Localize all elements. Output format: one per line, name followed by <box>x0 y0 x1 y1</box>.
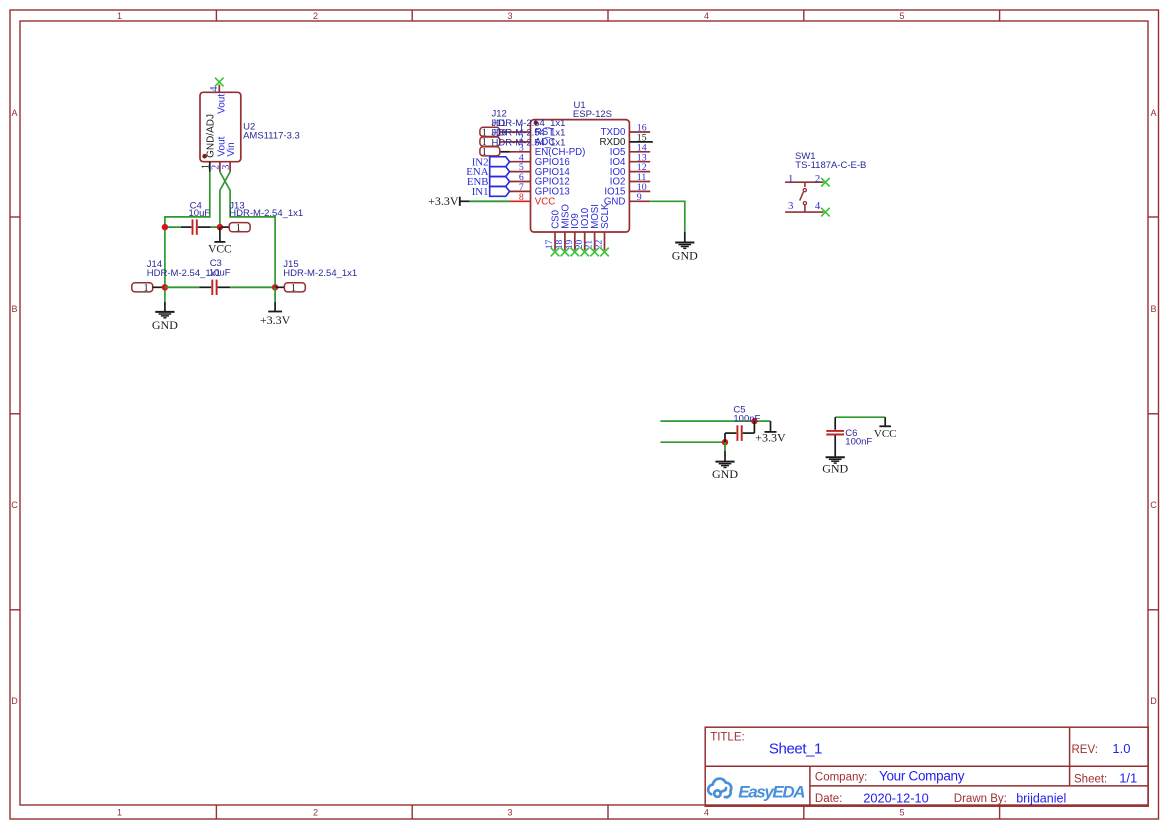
svg-text:1: 1 <box>117 808 122 818</box>
svg-text:VCC: VCC <box>208 243 232 255</box>
svg-text:+3.3V: +3.3V <box>260 313 291 327</box>
svg-text:HDR-M-2.54_1x1: HDR-M-2.54_1x1 <box>492 137 566 148</box>
capacitor C5 <box>725 421 754 442</box>
J14 value label <box>147 268 221 279</box>
U2 pin 3 number <box>221 165 232 170</box>
U2 pin 2 number <box>211 165 222 170</box>
svg-text:3: 3 <box>788 200 793 212</box>
header J13 <box>222 223 251 234</box>
svg-text:TITLE:: TITLE: <box>710 732 745 744</box>
svg-text:21: 21 <box>585 240 595 250</box>
J15 value label <box>283 268 357 279</box>
U2 pin 1 name GND/ADJ <box>205 114 216 158</box>
no-connect U2 pin 4 <box>215 78 224 87</box>
wire C3 right <box>230 286 275 288</box>
C3 reference label <box>210 258 222 269</box>
svg-text:1: 1 <box>291 283 296 294</box>
svg-text:8: 8 <box>519 192 524 203</box>
svg-text:Vout: Vout <box>217 94 228 114</box>
svg-text:Company:: Company: <box>815 771 867 783</box>
svg-text:+3.3V: +3.3V <box>428 194 459 208</box>
svg-text:D: D <box>1150 696 1157 706</box>
U1 bottom pin names <box>550 203 611 229</box>
svg-text:Vin: Vin <box>226 142 237 156</box>
svg-text:VCC: VCC <box>535 197 555 208</box>
svg-text:18: 18 <box>555 240 565 250</box>
switch SW1 <box>785 182 823 212</box>
svg-text:REV:: REV: <box>1072 744 1098 756</box>
svg-text:2: 2 <box>815 173 820 185</box>
J15 reference label <box>283 259 298 270</box>
C6 reference label <box>845 428 857 439</box>
SW1 pin 4 number <box>815 200 821 212</box>
svg-text:17: 17 <box>545 240 555 250</box>
svg-text:GND: GND <box>712 467 738 481</box>
ground GND at U1 pin 9 <box>672 232 698 263</box>
power flag +3.3V at U1 pin 8 <box>428 194 469 208</box>
svg-text:4: 4 <box>704 808 709 818</box>
net flag ENA <box>466 166 509 178</box>
U2 pin 4 name Vout <box>217 94 228 114</box>
svg-text:3: 3 <box>221 165 232 170</box>
no-connect SW1 pin 2 <box>821 178 830 187</box>
junction VCC node <box>217 224 223 230</box>
junction C5 top <box>751 418 757 424</box>
svg-text:22: 22 <box>595 240 605 250</box>
svg-text:A: A <box>11 108 17 118</box>
svg-text:C: C <box>1150 500 1157 510</box>
SW1 reference label <box>795 151 816 162</box>
svg-text:5: 5 <box>899 808 904 818</box>
U2 pin 4 number <box>209 86 220 91</box>
svg-text:4: 4 <box>209 86 220 91</box>
svg-text:4: 4 <box>815 200 821 212</box>
svg-text:B: B <box>11 304 17 314</box>
U1 right pin numbers <box>637 123 647 203</box>
capacitor C3 <box>199 280 230 295</box>
wire U1 pin 9 to ground <box>650 201 685 231</box>
wire U2 pin2 Vout to +3.3V rail <box>220 172 275 287</box>
svg-text:TS-1187A-C-E-B: TS-1187A-C-E-B <box>795 160 866 171</box>
svg-text:10uF: 10uF <box>189 208 211 219</box>
wire C4 left <box>165 226 181 228</box>
wire C5 top net <box>660 420 770 422</box>
svg-text:1: 1 <box>236 223 241 234</box>
U1 reference label <box>574 100 586 111</box>
svg-text:D: D <box>11 696 18 706</box>
svg-text:Sheet:: Sheet: <box>1074 774 1107 786</box>
SW1 pin 2 number <box>815 173 820 185</box>
junction C3 right <box>272 284 278 290</box>
J10 reference label <box>492 128 507 139</box>
svg-text:Sheet_1: Sheet_1 <box>769 740 822 757</box>
IC U1 ESP-12S <box>510 120 653 251</box>
header J12 <box>480 127 510 138</box>
power flag VCC <box>208 227 232 255</box>
svg-text:C: C <box>11 500 18 510</box>
ground GND at C5 <box>712 442 738 481</box>
header J14 <box>132 283 165 294</box>
U2 value label <box>243 131 300 142</box>
svg-text:1: 1 <box>144 283 149 294</box>
svg-text:2: 2 <box>313 808 318 818</box>
svg-text:ESP-12S: ESP-12S <box>573 109 612 120</box>
U1 value label ESP-12S <box>573 109 612 120</box>
capacitor C6 <box>826 417 844 456</box>
junction C4 left <box>162 224 168 230</box>
net flag IN1 <box>472 186 510 198</box>
svg-text:HDR-M-2.54_1x1: HDR-M-2.54_1x1 <box>229 208 303 219</box>
J13 value label <box>229 208 303 219</box>
wire C5 bottom net <box>660 441 725 443</box>
C5 value label 100nF <box>733 414 760 425</box>
svg-text:GND: GND <box>672 249 698 263</box>
svg-text:1.0: 1.0 <box>1112 741 1130 756</box>
header J11 <box>480 137 510 148</box>
J12 value label <box>492 118 566 129</box>
net flag ENB <box>467 176 510 188</box>
svg-text:19: 19 <box>565 240 575 250</box>
header J15 <box>275 283 305 294</box>
svg-text:brijdaniel: brijdaniel <box>1016 791 1066 805</box>
C3 value label 10uF <box>209 267 231 278</box>
svg-text:2: 2 <box>313 11 318 21</box>
svg-text:VCC: VCC <box>874 428 897 440</box>
capacitor C4 <box>181 219 211 234</box>
svg-text:10uF: 10uF <box>209 267 231 278</box>
svg-text:9: 9 <box>637 192 642 203</box>
U2 pin 1 number <box>201 164 212 169</box>
svg-text:AMS1117-3.3: AMS1117-3.3 <box>243 131 300 142</box>
svg-text:4: 4 <box>704 11 709 21</box>
svg-text:SCLK: SCLK <box>600 203 611 229</box>
svg-text:100nF: 100nF <box>845 437 872 448</box>
svg-text:20: 20 <box>575 240 585 250</box>
wire U2 pin1 to GND rail <box>165 172 210 302</box>
C4 reference label <box>190 201 202 212</box>
wire C6 top net <box>835 416 885 418</box>
U1 left pin numbers <box>519 123 524 203</box>
svg-text:IN1: IN1 <box>472 186 489 198</box>
svg-text:GND: GND <box>152 318 178 332</box>
svg-text:Drawn By:: Drawn By: <box>954 793 1007 805</box>
svg-text:1: 1 <box>117 11 122 21</box>
SW1 pin 3 number <box>788 200 793 212</box>
SW1 pin 1 number <box>788 173 793 185</box>
SW1 value label <box>795 160 866 171</box>
J12 reference label <box>492 108 507 119</box>
no-connect U1 bottom pins <box>551 248 609 257</box>
C5 reference label <box>733 405 745 416</box>
svg-text:A: A <box>1150 108 1156 118</box>
U1 bottom pin numbers <box>545 240 605 250</box>
net flag IN2 <box>472 156 510 168</box>
wire +3.3V to U1 pin 8 <box>470 200 510 202</box>
junction C5 bottom <box>722 439 728 445</box>
J11 reference label <box>492 118 507 129</box>
svg-text:+3.3V: +3.3V <box>755 431 786 445</box>
svg-text:100nF: 100nF <box>733 414 760 425</box>
J13 reference label <box>229 201 244 212</box>
svg-text:5: 5 <box>899 11 904 21</box>
voltage regulator U2 AMS1117-3.3 <box>200 85 241 172</box>
power flag +3.3V below J15 <box>260 287 291 327</box>
svg-text:B: B <box>1150 304 1156 314</box>
power flag VCC at C6 <box>874 417 897 440</box>
no-connect SW1 pin 4 <box>821 208 830 217</box>
U1 right pin names <box>600 127 626 207</box>
svg-text:HDR-M-2.54_1x1: HDR-M-2.54_1x1 <box>283 268 357 279</box>
svg-text:GND: GND <box>822 461 848 475</box>
svg-text:EasyEDA: EasyEDA <box>738 783 805 802</box>
svg-text:GND/ADJ: GND/ADJ <box>205 114 216 158</box>
power flag +3.3V at C5 <box>755 421 786 445</box>
ground GND at C6 <box>822 457 848 475</box>
header J10 <box>480 147 510 158</box>
svg-text:2020-12-10: 2020-12-10 <box>863 790 928 805</box>
junction C3 left <box>162 284 168 290</box>
J10 value label <box>492 137 566 148</box>
svg-text:1: 1 <box>788 173 793 185</box>
svg-text:Your Company: Your Company <box>879 769 965 784</box>
wire C3 left <box>165 286 200 288</box>
svg-text:1/1: 1/1 <box>1119 771 1137 786</box>
U2 reference label <box>243 121 255 132</box>
U1 left pin names <box>535 127 586 207</box>
svg-text:Date:: Date: <box>815 793 843 805</box>
svg-text:3: 3 <box>507 11 512 21</box>
U2 pin 3 name Vin <box>226 142 237 156</box>
wire U2 pin3 Vin to VCC node <box>220 172 230 227</box>
svg-text:3: 3 <box>507 808 512 818</box>
J11 value label <box>492 128 566 139</box>
C6 value label 100nF <box>845 437 872 448</box>
ground GND below C3 <box>152 302 178 332</box>
C4 value label 10uF <box>189 208 211 219</box>
U2 pin 2 name Vout <box>217 136 228 156</box>
J14 reference label <box>147 259 162 270</box>
wire C4 right <box>211 226 220 228</box>
